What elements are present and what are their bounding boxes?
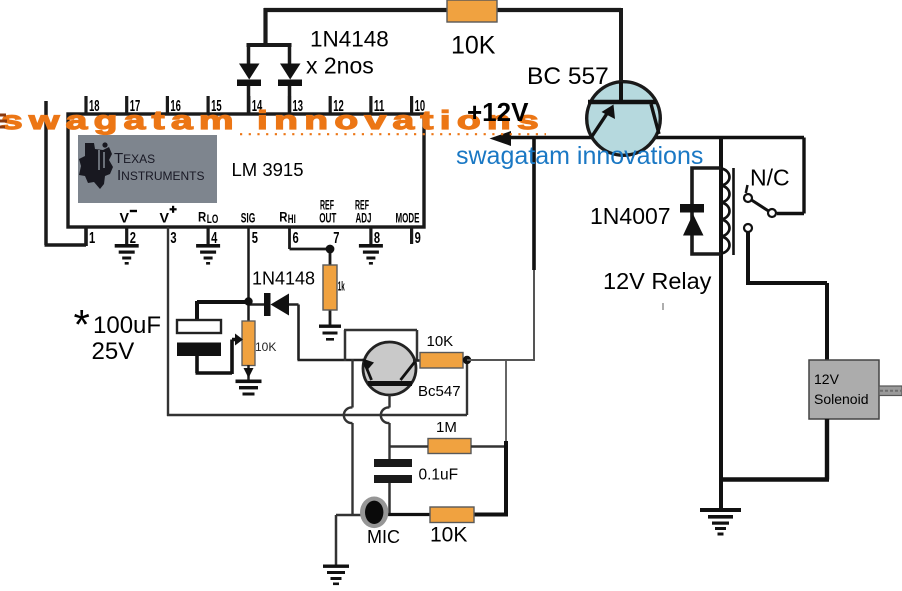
svg-text:BC 557: BC 557 — [527, 63, 609, 90]
svg-text:N/C: N/C — [750, 165, 790, 191]
svg-text:0.1uF: 0.1uF — [419, 467, 459, 484]
svg-text:100uF: 100uF — [93, 312, 161, 339]
svg-text:x 2nos: x 2nos — [306, 53, 374, 79]
svg-text:1M: 1M — [436, 419, 457, 436]
svg-text:12V: 12V — [814, 371, 840, 387]
svg-text:swagatam innovations: swagatam innovations — [1, 106, 545, 135]
svg-text:1N4148: 1N4148 — [252, 269, 315, 289]
svg-text:INSTRUMENTS: INSTRUMENTS — [117, 167, 205, 184]
svg-text:R: R — [198, 210, 206, 226]
svg-text:V: V — [160, 211, 170, 227]
svg-text:10K: 10K — [430, 524, 467, 547]
svg-text:5: 5 — [252, 230, 258, 247]
svg-text:8: 8 — [374, 230, 380, 247]
svg-text:Bc547: Bc547 — [418, 383, 461, 400]
svg-text:10K: 10K — [255, 340, 276, 354]
svg-text:7: 7 — [333, 230, 339, 247]
svg-text:6: 6 — [293, 230, 299, 247]
svg-text:LO: LO — [207, 214, 219, 226]
svg-text:10K: 10K — [451, 32, 496, 60]
svg-text:*: * — [74, 301, 90, 348]
svg-text:HI: HI — [288, 214, 296, 226]
svg-text:3: 3 — [170, 230, 176, 247]
svg-text:1k: 1k — [338, 279, 345, 294]
svg-text:1: 1 — [89, 230, 95, 247]
svg-text:25V: 25V — [92, 338, 135, 365]
svg-text:TEXAS: TEXAS — [114, 150, 155, 167]
svg-text:MODE: MODE — [396, 211, 420, 227]
svg-text:4: 4 — [211, 230, 217, 247]
svg-text:OUT: OUT — [319, 211, 336, 227]
svg-text:MIC: MIC — [367, 527, 400, 547]
svg-text:12V Relay: 12V Relay — [603, 268, 712, 294]
svg-text:ADJ: ADJ — [356, 211, 372, 227]
svg-text:R: R — [279, 210, 287, 226]
svg-text:SIG: SIG — [241, 211, 256, 227]
svg-text:LM 3915: LM 3915 — [232, 159, 304, 180]
svg-text:+12V: +12V — [467, 97, 529, 127]
svg-text:Solenoid: Solenoid — [814, 391, 869, 407]
svg-text:10K: 10K — [427, 333, 454, 350]
svg-text:1N4148: 1N4148 — [310, 27, 389, 52]
svg-text:V: V — [120, 211, 130, 227]
svg-text:9: 9 — [415, 230, 421, 247]
svg-text:2: 2 — [130, 230, 136, 247]
svg-text:1N4007: 1N4007 — [590, 203, 671, 229]
svg-text:swagatam innovations: swagatam innovations — [456, 142, 703, 170]
